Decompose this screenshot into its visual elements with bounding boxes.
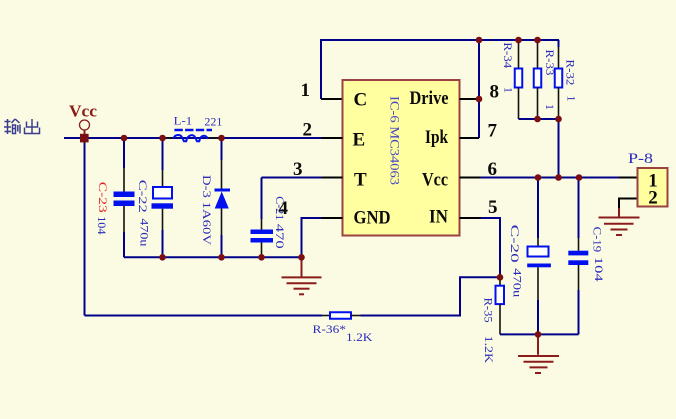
wire pin6 Vcc net — [481, 177, 620, 179]
power port Vcc pad — [80, 120, 90, 137]
resistor R-36 — [322, 312, 361, 319]
pin 5 stub — [460, 217, 482, 219]
svg-text:1: 1 — [502, 87, 516, 93]
svg-text:470u: 470u — [511, 268, 525, 297]
junction bottom rail — [535, 331, 542, 338]
junction C-22 bottom — [159, 254, 166, 261]
svg-text:Vcc: Vcc — [422, 170, 448, 191]
svg-text:T: T — [354, 170, 367, 191]
junction C-23 top — [121, 135, 128, 142]
junction R-35 top — [497, 274, 504, 281]
svg-text:C-20: C-20 — [508, 225, 522, 263]
svg-text:C-23: C-23 — [96, 182, 110, 213]
capacitor C-20 — [527, 178, 551, 335]
wire bottom rail left — [124, 256, 302, 258]
junction R-33 bottom — [534, 116, 541, 123]
resistor R-35 — [496, 277, 505, 334]
connector P-8 — [619, 168, 668, 210]
wire pin3 to C-21 — [262, 177, 322, 179]
svg-text:3: 3 — [293, 159, 303, 180]
wire resistors to Vcc net — [558, 119, 560, 178]
pin 8 stub — [460, 98, 480, 100]
wire: main output net y=138 — [64, 137, 322, 139]
svg-text:2: 2 — [648, 188, 658, 209]
junction pin8 — [476, 96, 483, 103]
svg-text:C: C — [354, 90, 368, 111]
junction top rail x479 — [476, 37, 483, 44]
wire bottom right rail — [500, 333, 579, 335]
svg-text:C-19: C-19 — [591, 227, 605, 253]
svg-text:L-1: L-1 — [174, 114, 193, 128]
svg-text:8: 8 — [490, 82, 500, 103]
junction top rail R-33 — [534, 37, 541, 44]
svg-text:104: 104 — [592, 257, 606, 282]
svg-text:Ipk: Ipk — [425, 127, 448, 148]
wire resistor bottom rail — [519, 118, 559, 120]
svg-text:R-36*: R-36* — [313, 322, 347, 336]
svg-text:Vcc: Vcc — [69, 102, 97, 121]
inductor L-1 — [166, 130, 219, 141]
junction C-22/L-1 left — [159, 135, 166, 142]
svg-text:IC-6 MC34063: IC-6 MC34063 — [388, 96, 403, 185]
svg-text:5: 5 — [488, 197, 498, 218]
svg-text:7: 7 — [488, 121, 498, 142]
svg-text:R-34: R-34 — [501, 42, 515, 68]
svg-text:Drive: Drive — [410, 88, 449, 109]
svg-text:R-35: R-35 — [482, 298, 496, 323]
wire R-36 to R-35 jog — [361, 277, 501, 315]
junction C-21 bottom — [258, 254, 265, 261]
wire pin5 drop — [481, 218, 500, 277]
svg-text:E: E — [353, 130, 366, 151]
IC U: IC-6 MC34063 — [343, 80, 460, 236]
wire drive drop x=479 — [478, 40, 480, 138]
capacitor C-19 — [568, 178, 588, 335]
pin 7 stub — [460, 137, 480, 139]
ground G1 — [282, 257, 322, 294]
junction top rail R-34 — [515, 37, 522, 44]
junction ground/rail — [298, 254, 305, 261]
junction D-3 bottom — [218, 254, 225, 261]
svg-text:R-32: R-32 — [564, 59, 578, 85]
svg-text:P-8: P-8 — [628, 151, 653, 167]
svg-text:1.2K: 1.2K — [346, 330, 373, 344]
svg-text:470u: 470u — [138, 218, 152, 246]
svg-text:C-22: C-22 — [136, 180, 150, 213]
junction C-20 top — [535, 174, 542, 181]
junction resistor drop — [555, 174, 562, 181]
wire pin4 drop — [302, 218, 322, 257]
svg-text:2: 2 — [303, 120, 313, 141]
wire left drop x=84.5 — [84, 138, 86, 316]
svg-text:1.2K: 1.2K — [482, 336, 496, 364]
wire bottom run to R-36 — [85, 315, 323, 317]
svg-text:1: 1 — [301, 80, 311, 101]
svg-text:1: 1 — [543, 104, 557, 110]
svg-text:1: 1 — [565, 96, 579, 102]
svg-text:221: 221 — [204, 115, 222, 129]
diode D-3 — [215, 138, 231, 257]
resistor R-33 — [534, 40, 542, 119]
capacitor C-23 — [114, 138, 135, 257]
resistor R-32 — [555, 40, 563, 119]
pin 3 stub — [322, 177, 343, 179]
svg-text:104: 104 — [95, 216, 109, 234]
svg-text:GND: GND — [354, 208, 391, 229]
pin 2 stub — [322, 137, 343, 139]
junction R-32 bottom — [555, 116, 562, 123]
net label 输出 (output) — [4, 119, 40, 134]
junction at Vcc/main — [80, 134, 89, 143]
pin 6 stub — [460, 177, 481, 179]
svg-text:D-3 1A60V: D-3 1A60V — [200, 175, 214, 245]
pin 4 stub — [322, 217, 343, 219]
pin 1 stub — [321, 98, 343, 100]
capacitor C-22 — [152, 138, 174, 257]
junction C-19 top — [576, 174, 583, 181]
svg-text:4: 4 — [279, 198, 289, 219]
wire pin1 top loop — [321, 40, 559, 99]
ground G3 — [518, 334, 559, 373]
junction D-3/L-1 right — [218, 135, 225, 142]
svg-text:IN: IN — [429, 207, 448, 228]
svg-text:470: 470 — [273, 224, 287, 249]
capacitor C-21 — [251, 178, 274, 258]
ground G2 (P-8) — [599, 208, 640, 235]
resistor R-34 — [515, 40, 523, 119]
